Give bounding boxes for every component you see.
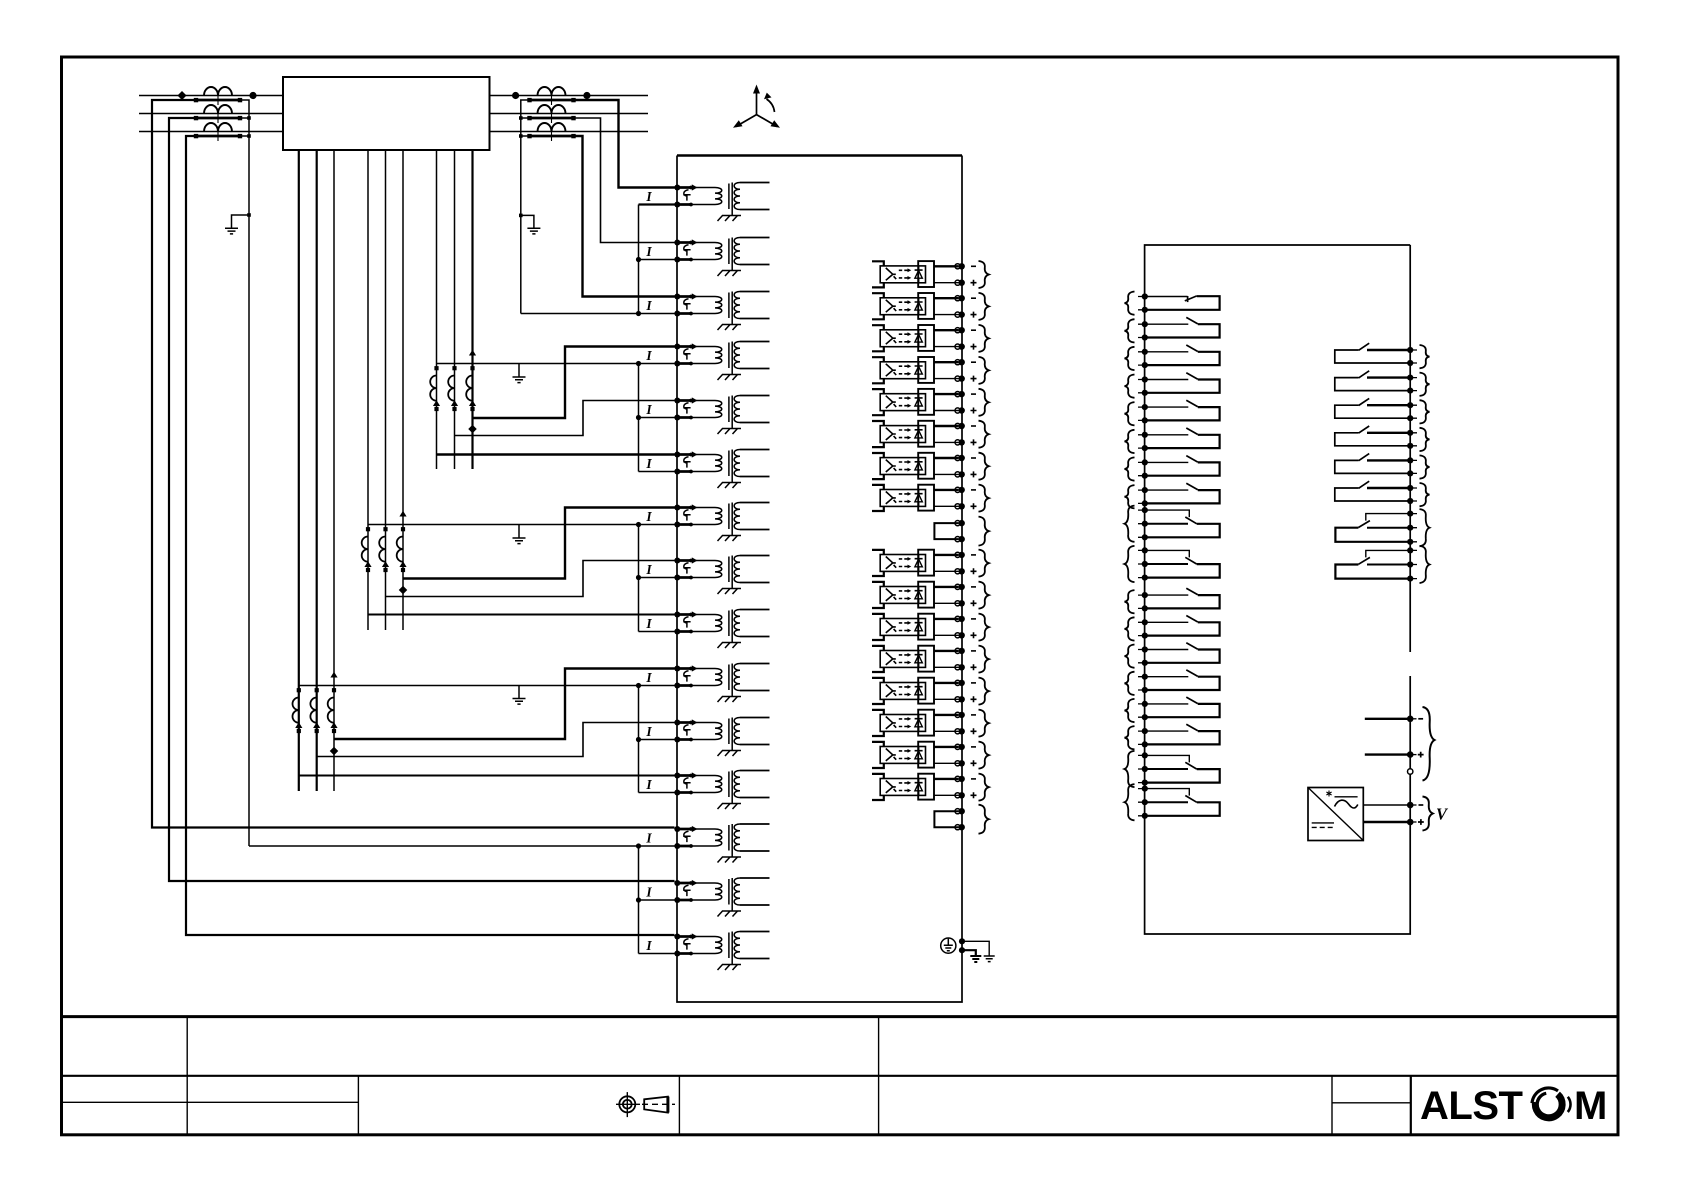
earth stub group B bbox=[518, 364, 520, 378]
PSU DC solid line bbox=[1312, 822, 1334, 824]
protective earth terminal dot upper bbox=[959, 938, 965, 944]
aux terminal minus bbox=[1407, 716, 1414, 723]
output contact RL12 bbox=[1125, 616, 1220, 641]
opto-isolated input K6 bbox=[872, 421, 989, 448]
opto-isolated input K16 bbox=[872, 774, 989, 801]
PSU brace bbox=[1423, 797, 1433, 831]
junction dot I8 bottom bbox=[636, 575, 641, 580]
diamond marker group B bbox=[468, 425, 476, 433]
dropper wire group B phase A bbox=[436, 150, 438, 469]
junction dot I5 bottom bbox=[636, 415, 641, 420]
title block mid rule bbox=[62, 1075, 1619, 1077]
opto-isolated input K7 bbox=[872, 453, 989, 480]
ground group B bbox=[513, 377, 526, 383]
current input transformer I9 bbox=[645, 610, 769, 649]
junction square right star B bbox=[519, 116, 523, 120]
output contact RL4 bbox=[1125, 373, 1220, 398]
ground PE right bbox=[984, 956, 995, 962]
dropper wire group B phase C bbox=[471, 150, 473, 469]
wire input I1 bottom bbox=[639, 203, 678, 205]
dropper wire group D phase C bbox=[333, 150, 335, 791]
junction dot I2 bottom bbox=[636, 257, 641, 262]
dropper wire group C phase C bbox=[402, 150, 404, 630]
dropper wire group C phase A bbox=[367, 150, 369, 630]
wire CT T7 to input I6 top bbox=[437, 453, 675, 455]
opto-isolated input K15 bbox=[872, 742, 989, 769]
commoning wire inputs I7-I9 bottoms bbox=[639, 525, 678, 632]
star bus group C to input I7 bottom bbox=[368, 524, 675, 526]
output contact RL6 bbox=[1125, 428, 1220, 453]
output contact RR4 bbox=[1335, 426, 1430, 451]
busbar phase line C (left) bbox=[139, 131, 283, 133]
opto-isolated input K1 bbox=[872, 261, 989, 288]
CT T4 phase A right bbox=[527, 87, 575, 105]
junction square left star C bbox=[247, 134, 251, 138]
diamond marker group C bbox=[399, 586, 407, 594]
wire right star earth stub bbox=[521, 215, 534, 228]
current input transformer I7 bbox=[645, 503, 769, 542]
phase rotation arrows bbox=[736, 89, 777, 127]
title block divider 5 bbox=[1331, 1076, 1333, 1135]
wire CT T14 to input I11 top bbox=[317, 723, 675, 757]
dropper wire group C phase B bbox=[385, 150, 387, 630]
earth stub group C bbox=[518, 525, 520, 539]
projection symbol cone bbox=[644, 1097, 668, 1113]
opto-isolated input K14 bbox=[872, 710, 989, 737]
wire CT T9 to input I4 top bbox=[473, 347, 675, 419]
output contact RR6 bbox=[1335, 481, 1430, 506]
dropper wire group D phase A bbox=[298, 150, 300, 791]
output contact RL16 bbox=[1125, 724, 1220, 749]
output contact RR3 bbox=[1335, 398, 1430, 423]
output contact RL7 bbox=[1125, 456, 1220, 481]
junction dot bus C bbox=[636, 522, 641, 527]
junction dot star E bbox=[636, 843, 641, 848]
title block small cell rule bbox=[1332, 1102, 1411, 1104]
aux supply stub wire plus bbox=[1365, 753, 1408, 755]
current input transformer I14 bbox=[645, 878, 769, 917]
busbar phase line C (right) bbox=[490, 131, 649, 133]
title block lower-left rule bbox=[62, 1101, 359, 1103]
star bus group D to input I10 bottom bbox=[299, 685, 675, 687]
wire right CT star point common bbox=[521, 100, 530, 314]
aux spare terminal bbox=[1408, 769, 1413, 774]
aux label minus bbox=[1418, 718, 1423, 720]
wire left star earth stub bbox=[232, 215, 250, 228]
busbar phase line B (right) bbox=[490, 113, 649, 115]
current input transformer I1 bbox=[645, 183, 769, 222]
opto-isolated input K8 bbox=[872, 485, 989, 512]
output contact RR2 bbox=[1335, 371, 1430, 396]
output contact RL11 bbox=[1125, 588, 1220, 613]
PSU label plus bbox=[1418, 819, 1424, 825]
wire left CT star point common bbox=[240, 100, 249, 846]
interposing terminal box bbox=[283, 77, 490, 150]
CT T10 on dropper bbox=[362, 527, 372, 572]
commoning wire inputs I4-I6 bottoms bbox=[639, 364, 678, 472]
star bus group B to input I4 bottom bbox=[437, 363, 675, 365]
wire CT T6 secondary to input I3 top bbox=[574, 136, 675, 297]
CT T13 on dropper bbox=[293, 688, 303, 733]
commoning wire inputs I13-I15 bottoms bbox=[639, 846, 678, 954]
earth stub group D bbox=[518, 686, 520, 699]
ALSTOM logo O swirl bbox=[1532, 1088, 1571, 1118]
output contact RL5 bbox=[1125, 400, 1220, 425]
wire CT T15 to input I10 top bbox=[334, 669, 675, 740]
changeover contact RL17 bbox=[1125, 751, 1220, 787]
output contact RR1 (right) bbox=[1335, 343, 1430, 368]
flow arrow group D bbox=[330, 672, 337, 678]
busbar phase line B (left) bbox=[139, 113, 283, 115]
ground right CT star bbox=[527, 228, 540, 234]
opto-isolated input K3 bbox=[872, 325, 989, 352]
current input transformer I13 bbox=[645, 824, 769, 863]
PSU AC line bbox=[1335, 796, 1358, 798]
junction square right star earth bbox=[519, 214, 523, 218]
output contact RL1 (left, with indicator) bbox=[1125, 292, 1220, 315]
wire CT T11 to input I8 top bbox=[386, 561, 675, 597]
ground left CT star bbox=[225, 228, 238, 234]
opto-isolated input K5 bbox=[872, 389, 989, 416]
changeover contact RL10 bbox=[1125, 546, 1220, 582]
output contact RL2 bbox=[1125, 317, 1220, 342]
junction dot I14 bottom bbox=[636, 897, 641, 902]
opto-isolated input K11 bbox=[872, 614, 989, 641]
junction dot on phase A right 2 bbox=[583, 92, 590, 99]
wire PE lower to ground bbox=[962, 950, 976, 956]
spare input link 2 bbox=[934, 805, 988, 834]
output contact RL13 bbox=[1125, 643, 1220, 668]
aux supply stub wire minus bbox=[1365, 718, 1408, 720]
protective earth terminal dot lower bbox=[959, 947, 965, 953]
PSU sine wave bbox=[1335, 800, 1358, 808]
wire CT T2 secondary to input I14 top bbox=[169, 118, 675, 881]
current input transformer I10 bbox=[645, 664, 769, 703]
commoning wire inputs I10-I12 bottoms bbox=[639, 686, 678, 793]
spare input link 1 bbox=[934, 517, 988, 546]
changeover contact RR7 bbox=[1335, 509, 1429, 546]
junction square right star C bbox=[519, 134, 523, 138]
changeover contact RL18 bbox=[1125, 784, 1220, 820]
wire CT T12 to input I7 top bbox=[403, 508, 675, 579]
junction dot star A bbox=[636, 311, 641, 316]
svg-text:ALST: ALST bbox=[1420, 1084, 1523, 1128]
CT T11 on dropper bbox=[379, 527, 389, 572]
diamond marker group D bbox=[330, 747, 338, 755]
output contact RL3 bbox=[1125, 345, 1220, 370]
PSU label minus bbox=[1419, 804, 1424, 806]
CT T9 on dropper bbox=[466, 366, 476, 411]
junction square left star earth bbox=[247, 213, 251, 217]
commoning wire inputs I1-I3 bottoms bbox=[639, 205, 678, 314]
wire CT T10 to input I9 top bbox=[368, 614, 675, 616]
busbar phase line A (right) bbox=[490, 95, 649, 97]
current input transformer I15 bbox=[645, 932, 769, 971]
opto-isolated input K9 bbox=[872, 550, 989, 577]
current input transformer I3 bbox=[645, 292, 769, 331]
PSU terminal minus bbox=[1407, 802, 1414, 809]
CT T3 phase C left bbox=[194, 123, 242, 141]
node marker diamond on phase A bbox=[177, 91, 186, 100]
PSU AC/DC converter box bbox=[1308, 788, 1363, 841]
wire PSU output minus bbox=[1363, 804, 1407, 806]
analog input module case bbox=[677, 154, 962, 157]
changeover contact RR8 bbox=[1335, 546, 1429, 583]
junction dot on phase A left bbox=[249, 92, 256, 99]
current input transformer I12 bbox=[645, 771, 769, 810]
current input transformer I2 bbox=[645, 238, 769, 277]
ground group D bbox=[513, 699, 526, 705]
opto-isolated input K4 bbox=[872, 357, 989, 384]
output contact RL8 bbox=[1125, 483, 1220, 508]
output contact RL15 bbox=[1125, 697, 1220, 722]
PSU DC dashed line bbox=[1312, 826, 1334, 828]
logo cell divider bbox=[1410, 1076, 1412, 1135]
CT T15 on dropper bbox=[328, 688, 338, 733]
output contact RL14 bbox=[1125, 670, 1220, 695]
busbar phase line A (left) bbox=[139, 95, 283, 97]
wire PE upper to ground bbox=[962, 941, 989, 956]
current input transformer I4 bbox=[645, 342, 769, 381]
opto-isolated input K12 bbox=[872, 646, 989, 673]
CT T8 on dropper bbox=[448, 366, 458, 411]
title block divider 4 bbox=[678, 1076, 680, 1135]
changeover contact RL9 bbox=[1125, 506, 1220, 542]
output contact RR5 bbox=[1335, 454, 1430, 479]
current input transformer I8 bbox=[645, 556, 769, 595]
current input transformer I11 bbox=[645, 718, 769, 757]
title block divider 1 bbox=[186, 1017, 188, 1135]
CT T12 on dropper bbox=[397, 527, 407, 572]
wire right star to input I3 bottom bbox=[521, 313, 675, 315]
opto-isolated input K2 bbox=[872, 293, 989, 320]
current input transformer I6 bbox=[645, 450, 769, 489]
CT T1 phase A left bbox=[194, 87, 242, 105]
wire CT T5 secondary to input I2 top bbox=[574, 118, 675, 243]
title block top rule bbox=[62, 1015, 1619, 1018]
PSU terminal plus bbox=[1407, 819, 1414, 826]
wire CT T8 to input I5 top bbox=[455, 401, 675, 436]
opto-isolated input K13 bbox=[872, 678, 989, 705]
junction dot I11 bottom bbox=[636, 737, 641, 742]
title block divider 3 bbox=[357, 1076, 359, 1135]
flow arrow group B bbox=[469, 350, 476, 356]
ground group C bbox=[513, 538, 526, 544]
junction dot on phase A right 1 bbox=[512, 92, 519, 99]
PSU star mark bbox=[1326, 791, 1331, 797]
CT T7 on dropper bbox=[430, 366, 440, 411]
opto-isolated input K10 bbox=[872, 582, 989, 609]
svg-text:M: M bbox=[1574, 1084, 1607, 1128]
dropper wire group D phase B bbox=[316, 150, 318, 791]
flow arrow group C bbox=[399, 511, 406, 517]
output module case bbox=[1145, 245, 1411, 934]
aux supply brace bbox=[1423, 707, 1435, 781]
wire CT T13 to input I12 top bbox=[299, 775, 675, 777]
aux terminal plus bbox=[1407, 751, 1414, 758]
junction square left star B bbox=[247, 116, 251, 120]
CT T2 phase B left bbox=[194, 105, 242, 123]
dropper wire group B phase B bbox=[454, 150, 456, 469]
CT T6 phase C right bbox=[527, 123, 575, 141]
wire left star to input I13 bottom bbox=[249, 845, 675, 847]
current input transformer I5 bbox=[645, 396, 769, 435]
junction dot bus D bbox=[636, 683, 641, 688]
wire CT T4 secondary to input I1 top bbox=[574, 100, 675, 188]
projection symbol circles bbox=[616, 1092, 675, 1117]
PE circle symbol bbox=[941, 938, 956, 953]
wire CT T1 secondary to input I13 top bbox=[152, 100, 675, 828]
aux label plus bbox=[1418, 752, 1424, 758]
junction dot bus B bbox=[636, 361, 641, 366]
title block divider 2 bbox=[878, 1017, 880, 1135]
wire CT T3 secondary to input I15 top bbox=[186, 136, 675, 935]
CT T14 on dropper bbox=[310, 688, 320, 733]
CT T5 phase B right bbox=[527, 105, 575, 123]
wire PSU output plus bbox=[1363, 821, 1407, 823]
ground PE left bbox=[970, 956, 981, 962]
